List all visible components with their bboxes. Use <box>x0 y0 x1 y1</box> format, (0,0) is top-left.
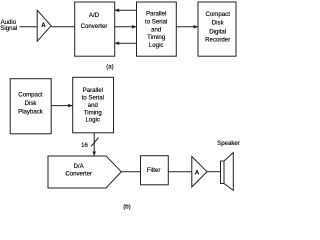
bus width slash <box>91 138 99 147</box>
svg-text:Disk: Disk <box>212 20 225 27</box>
svg-text:and: and <box>88 102 98 109</box>
svg-text:Playback: Playback <box>18 108 44 115</box>
svg-text:Logic: Logic <box>86 117 101 124</box>
svg-text:Timing: Timing <box>147 34 165 41</box>
svg-text:Filter: Filter <box>147 167 161 174</box>
svg-text:A: A <box>195 170 200 176</box>
svg-text:A/D: A/D <box>89 12 100 19</box>
svg-text:and: and <box>151 26 161 33</box>
svg-text:Speaker: Speaker <box>217 140 240 147</box>
speaker driver <box>221 161 225 184</box>
Compact Disk Playback block <box>10 79 51 134</box>
svg-text:(b): (b) <box>123 203 130 210</box>
svg-text:Converter: Converter <box>65 171 92 178</box>
Parallel to Serial and Timing Logic block (b) <box>73 77 114 133</box>
wire parallel-serial down to D/A (arrow down) <box>93 133 95 156</box>
svg-text:Parallel: Parallel <box>83 87 103 94</box>
svg-text:(a): (a) <box>106 63 113 70</box>
wire A/D to parallel-serial (middle, arrow right) <box>115 26 137 28</box>
speaker cone <box>224 153 233 191</box>
wire audio signal to amp <box>20 26 38 28</box>
svg-text:Compact: Compact <box>206 11 231 18</box>
D/A Converter block <box>48 156 121 188</box>
op-amp A (output amplifier) <box>192 157 207 188</box>
svg-text:16: 16 <box>81 142 88 149</box>
A/D Converter block <box>75 2 115 56</box>
op-amp A (input amplifier) <box>37 10 51 41</box>
svg-text:to Serial: to Serial <box>82 95 104 102</box>
wire amp to speaker <box>207 171 221 173</box>
wire filter to amp <box>168 171 192 173</box>
wire parallel-serial to A/D (bottom, arrow left) <box>115 42 137 44</box>
svg-text:Digital: Digital <box>209 28 226 35</box>
wire parallel-serial to recorder (arrow right) <box>176 26 198 28</box>
svg-text:Timing: Timing <box>84 109 102 116</box>
wire parallel-serial to A/D (top, arrow left) <box>115 9 137 11</box>
svg-text:D/A: D/A <box>74 163 85 170</box>
svg-text:Recorder: Recorder <box>205 37 230 44</box>
Parallel to Serial and Timing Logic block (a) <box>137 2 177 56</box>
wire D/A to filter <box>121 171 140 173</box>
svg-text:to Serial: to Serial <box>145 18 167 25</box>
svg-text:Converter: Converter <box>81 23 108 30</box>
svg-text:Disk: Disk <box>25 100 38 107</box>
Compact Disk Digital Recorder block <box>198 2 236 56</box>
svg-text:Compact: Compact <box>18 92 43 99</box>
svg-text:Logic: Logic <box>149 42 164 49</box>
node Audio Signal input label <box>0 19 17 32</box>
wire playback to parallel-serial (arrow right) <box>51 105 72 107</box>
wire amp to A/D converter <box>51 26 75 28</box>
svg-text:Signal: Signal <box>0 25 17 32</box>
svg-text:A: A <box>41 23 46 29</box>
Filter block <box>141 156 169 185</box>
svg-text:Parallel: Parallel <box>146 10 166 17</box>
